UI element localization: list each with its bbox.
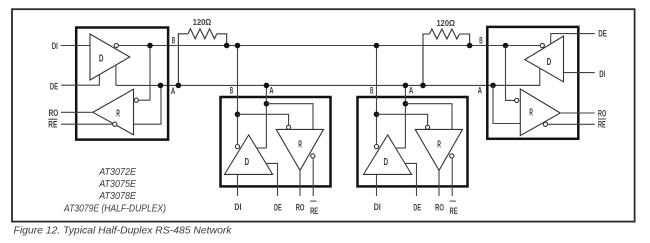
svg-text:R: R: [298, 140, 302, 151]
junction dot R2 left lead on A: [420, 83, 426, 89]
wire: U1 RO output: [61, 111, 93, 113]
wire: U1 DI input: [61, 45, 90, 47]
wire: U4 RO output: [560, 112, 594, 114]
junction dot U2 B internal: [235, 112, 241, 118]
transceiver U4 box (right): [487, 27, 578, 139]
svg-text:RO: RO: [296, 202, 305, 213]
wire: U4 DE input: [551, 34, 595, 45]
wire: A bus line: [116, 84, 540, 86]
inversion bubble U1 D output to B: [114, 43, 118, 47]
inversion bubble U2 RE enable: [311, 154, 315, 158]
svg-text:D: D: [99, 54, 104, 65]
svg-text:DE: DE: [598, 29, 607, 40]
svg-text:RO: RO: [598, 109, 607, 120]
wire: U4 DI input: [564, 72, 595, 74]
resistor R1 120ohm termination: [178, 29, 226, 86]
svg-text:120Ω: 120Ω: [193, 18, 212, 27]
wire: U3 RO pin: [438, 170, 440, 196]
svg-text:B: B: [230, 84, 234, 95]
svg-text:AT3078E: AT3078E: [98, 191, 136, 202]
junction dot U4 A internal: [490, 83, 496, 89]
inversion bubble U3 D output: [374, 145, 378, 149]
svg-text:B: B: [479, 35, 483, 46]
wire: U2 A stub to D output edge: [257, 147, 266, 149]
svg-text:R: R: [116, 109, 120, 120]
inversion bubble U2 R input: [287, 125, 291, 129]
svg-text:AT3072E: AT3072E: [98, 167, 136, 178]
svg-text:D: D: [384, 157, 389, 168]
resistor R2 120ohm termination: [423, 29, 470, 85]
transceiver U1 box (left): [76, 28, 168, 140]
inversion bubble U1 R input from B: [134, 98, 138, 102]
part number list: [63, 167, 166, 215]
junction dot R1 right lead on B: [224, 43, 230, 49]
inversion bubble U4 D output to B: [540, 43, 544, 47]
junction dot B at U1 R branch: [147, 43, 153, 49]
junction dot A at U1 output: [158, 83, 164, 89]
wire: B bus line: [118, 45, 540, 47]
junction dot R2 right lead on B: [467, 43, 473, 49]
svg-text:D: D: [547, 57, 552, 68]
wire: U2 B to R inverting input: [238, 114, 289, 125]
wire: U2 DE pin: [266, 163, 278, 196]
wire: U3 RE pin: [451, 158, 453, 196]
svg-text:A: A: [409, 84, 414, 95]
svg-text:D: D: [245, 157, 250, 168]
inversion bubble U3 RE enable: [450, 154, 454, 158]
svg-text:AT3075E: AT3075E: [98, 179, 136, 190]
svg-text:A: A: [478, 85, 483, 96]
wire: U3 DE pin: [405, 163, 417, 196]
svg-text:RE: RE: [598, 119, 606, 130]
wire: U3 A tap from bus: [404, 85, 406, 148]
wire: U3 A stub to D output edge: [396, 147, 405, 149]
svg-text:DI: DI: [374, 202, 381, 213]
svg-text:A: A: [171, 85, 176, 96]
svg-text:R: R: [529, 107, 533, 118]
driver U2 D triangle: [225, 135, 273, 175]
wire: U1 DE input: [61, 75, 99, 86]
junction dot U2 B tap on bus: [235, 43, 241, 49]
receiver U3 R triangle: [415, 129, 462, 170]
wire: U1 R inverting input from B junction: [138, 46, 150, 100]
svg-text:DE: DE: [274, 202, 282, 213]
junction dot R1 left lead on A: [176, 83, 182, 89]
svg-text:B: B: [172, 34, 176, 45]
inversion bubble U4 R input: [515, 98, 519, 102]
svg-text:RE: RE: [450, 206, 458, 217]
svg-text:DI: DI: [234, 202, 241, 213]
wire: U2 RE pin: [312, 158, 314, 196]
receiver U2 R triangle: [276, 129, 323, 170]
wire: U2 RO pin: [299, 170, 301, 196]
junction dot U3 B tap on bus: [374, 43, 380, 49]
svg-text:120Ω: 120Ω: [437, 19, 456, 28]
junction dot U3 A tap on bus: [403, 83, 409, 89]
inversion bubble U4 RE enable: [543, 122, 547, 126]
wire: U2 B tap from bus: [237, 46, 239, 145]
receiver U1 R triangle: [93, 89, 134, 135]
wire: U4 B to R inverting input: [506, 46, 515, 101]
junction dot U2 A tap on bus: [264, 83, 270, 89]
transceiver U3 box (middle-right): [358, 97, 468, 186]
svg-text:DI: DI: [52, 41, 58, 52]
wire: U4 RE input: [548, 123, 595, 125]
wire: U4 A stub to D output edge: [539, 68, 541, 86]
svg-text:R: R: [437, 140, 441, 151]
junction dot U3 B internal: [374, 112, 380, 118]
svg-text:A: A: [269, 84, 274, 95]
svg-text:Figure 12. Typical Half-Duplex: Figure 12. Typical Half-Duplex RS-485 Ne…: [14, 225, 233, 237]
junction dot U2 A internal: [264, 101, 270, 107]
wire: U4 A to R noninverting input: [493, 85, 520, 123]
wire: U1 D noninverting output stub to A: [115, 65, 117, 85]
svg-text:RE: RE: [310, 206, 318, 217]
wire: U1 RE input: [61, 123, 113, 125]
wire: U3 B tap from bus: [376, 46, 378, 145]
inversion bubble U3 R input: [426, 125, 430, 129]
wire: U2 DI pin: [237, 174, 239, 196]
inversion bubble U1 RE enable: [113, 122, 117, 126]
wire: U3 B to R inverting input: [377, 114, 428, 125]
wire: U2 A to R noninverting input: [266, 104, 313, 130]
svg-text:DE: DE: [413, 202, 421, 213]
svg-text:AT3079E (HALF-DUPLEX): AT3079E (HALF-DUPLEX): [63, 203, 166, 214]
driver U4 D triangle: [525, 36, 564, 82]
wire: A into U4: [488, 84, 539, 86]
svg-text:DE: DE: [50, 81, 58, 92]
wire: U1 R noninverting input from A junction: [134, 86, 162, 124]
wire: U3 A to R noninverting input: [405, 104, 452, 130]
svg-text:RO: RO: [49, 108, 59, 119]
inversion bubble U2 D output: [235, 145, 239, 149]
junction dot U3 A internal: [403, 101, 409, 107]
receiver U4 R triangle: [520, 89, 560, 136]
wire: B into U4: [487, 45, 540, 47]
wire: U2 A tap from bus: [265, 85, 267, 148]
junction dot U4 B internal: [503, 43, 509, 49]
transceiver U2 box (middle-left): [221, 97, 331, 186]
driver U3 D triangle: [364, 135, 412, 175]
svg-text:DI: DI: [599, 69, 605, 80]
wire: U3 DI pin: [376, 174, 378, 196]
svg-text:RE: RE: [48, 120, 58, 131]
svg-text:RO: RO: [435, 202, 444, 213]
driver U1 D triangle: [90, 34, 130, 80]
svg-text:B: B: [370, 84, 374, 95]
